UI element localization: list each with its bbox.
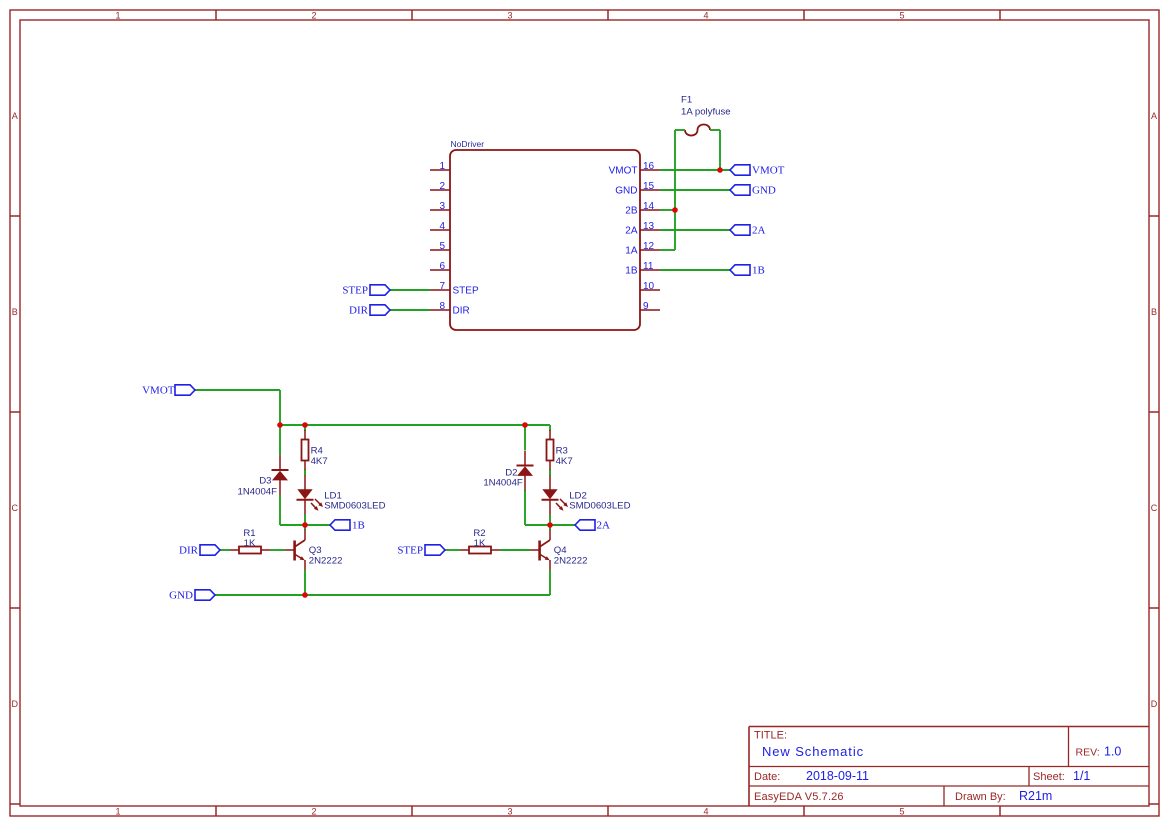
wire R2 to Q4 base <box>500 549 530 551</box>
wire R1 to Q3 base <box>270 549 285 551</box>
frame tick top x=216 <box>215 10 217 20</box>
svg-text:7: 7 <box>439 281 445 292</box>
svg-text:12: 12 <box>643 241 655 252</box>
svg-text:DIR: DIR <box>453 306 470 317</box>
svg-text:GND: GND <box>752 185 776 197</box>
svg-text:5: 5 <box>899 807 904 817</box>
svg-text:Date:: Date: <box>754 771 780 783</box>
net port STEP (points right) <box>425 545 445 555</box>
frame tick left y=216 <box>10 215 20 217</box>
title block border lines <box>749 727 1149 807</box>
wire DIR port to U1 pin 8 <box>390 309 430 311</box>
svg-text:GND: GND <box>169 590 193 602</box>
net port GND (points left) <box>730 185 750 195</box>
svg-text:15: 15 <box>643 181 655 192</box>
svg-text:1K: 1K <box>474 538 486 549</box>
svg-text:B: B <box>12 307 18 317</box>
svg-text:10: 10 <box>643 281 655 292</box>
frame tick top x=412 <box>411 10 413 20</box>
pin 12 of U1 <box>640 249 660 251</box>
wire LD1 to node 1B <box>304 515 306 526</box>
pin 9 of U1 <box>640 309 660 311</box>
wire GND rail <box>215 594 550 596</box>
svg-text:B: B <box>1151 307 1157 317</box>
wire VMOT down to rail <box>279 390 281 425</box>
frame tick right y=608 <box>1149 607 1159 609</box>
pin 11 of U1 <box>640 269 660 271</box>
wire STEP port to U1 pin 7 <box>390 289 430 291</box>
svg-text:STEP: STEP <box>342 285 368 297</box>
svg-text:TITLE:: TITLE: <box>754 730 787 742</box>
junction at U1 pin 14 <box>672 207 678 213</box>
svg-text:DIR: DIR <box>179 545 199 557</box>
frame tick right y=216 <box>1149 215 1159 217</box>
pin 15 of U1 <box>640 189 660 191</box>
wire LD2 to node 2A <box>549 515 551 526</box>
frame tick bottom x=1000 <box>999 806 1001 816</box>
wire fuse net top right <box>710 129 720 131</box>
wire U1 pin 11 to 1B port <box>660 269 730 271</box>
svg-text:16: 16 <box>643 161 655 172</box>
pin 8 of U1 <box>430 309 450 311</box>
wire Q3 emitter to GND rail <box>304 570 306 595</box>
svg-text:1: 1 <box>439 161 445 172</box>
svg-text:2: 2 <box>311 10 316 20</box>
wire D2 cathode down <box>524 490 526 525</box>
svg-text:3: 3 <box>439 201 445 212</box>
svg-text:VMOT: VMOT <box>142 385 175 397</box>
net port DIR (points right) <box>200 545 220 555</box>
wire R3 to LD2 <box>549 470 551 477</box>
transistor Q4 2N2222 NPN <box>530 530 550 571</box>
svg-text:GND: GND <box>615 186 637 197</box>
svg-text:3: 3 <box>507 807 512 817</box>
op-amp U1 NoDriver IC body <box>450 150 640 330</box>
svg-text:2N2222: 2N2222 <box>309 555 343 566</box>
svg-text:1/1: 1/1 <box>1073 769 1090 783</box>
svg-text:C: C <box>12 503 19 513</box>
resistor R2 1K horizontal <box>460 547 500 554</box>
svg-text:2A: 2A <box>625 226 638 237</box>
wire rail to R4 <box>304 425 306 431</box>
svg-text:1B: 1B <box>352 520 365 532</box>
net port 2A (points left) <box>575 520 595 530</box>
diode D3 1N4004F <box>272 455 289 495</box>
svg-text:1K: 1K <box>244 538 256 549</box>
wire U1 pin 13 to 2A port <box>660 229 730 231</box>
svg-text:SMD0603LED: SMD0603LED <box>324 501 385 512</box>
wire fuse net vertical right <box>719 130 721 170</box>
svg-text:2N2222: 2N2222 <box>554 555 588 566</box>
net port 1B (points left) <box>330 520 350 530</box>
svg-text:2: 2 <box>311 807 316 817</box>
wire U1 pin 16 to VMOT port <box>660 169 730 171</box>
net port DIR (points right) <box>370 305 390 315</box>
svg-text:D: D <box>12 699 19 709</box>
svg-text:NoDriver: NoDriver <box>451 139 485 149</box>
svg-text:1: 1 <box>115 10 120 20</box>
pin 6 of U1 <box>430 269 450 271</box>
wire D2 to node 2A <box>525 524 550 526</box>
frame tick top x=608 <box>607 10 609 20</box>
pin 16 of U1 <box>640 169 660 171</box>
svg-text:LD1: LD1 <box>324 490 342 501</box>
node 2A junction <box>547 522 553 528</box>
net port GND (points right) <box>195 590 215 600</box>
wire rail to D2 anode <box>524 425 526 450</box>
svg-text:5: 5 <box>439 241 445 252</box>
wire STEP port to R2 <box>445 549 460 551</box>
svg-text:1: 1 <box>115 807 120 817</box>
svg-text:D3: D3 <box>259 476 271 487</box>
net port STEP (points right) <box>370 285 390 295</box>
wire U1 pin 14 stub to fuse net <box>660 209 675 211</box>
wire VMOT port horizontal <box>195 389 280 391</box>
frame tick top x=804 <box>803 10 805 20</box>
wire node 1B to Q3 collector <box>304 525 306 530</box>
svg-text:1.0: 1.0 <box>1104 745 1121 759</box>
frame tick top x=1000 <box>999 10 1001 20</box>
net port 1B (points left) <box>730 265 750 275</box>
svg-text:Sheet:: Sheet: <box>1033 771 1065 783</box>
svg-text:STEP: STEP <box>397 545 423 557</box>
frame tick left y=804 <box>10 803 20 805</box>
svg-text:Drawn By:: Drawn By: <box>955 791 1006 803</box>
svg-text:4: 4 <box>439 221 445 232</box>
wire fuse net vertical left <box>674 130 676 250</box>
svg-text:F1: F1 <box>681 95 692 106</box>
svg-text:4K7: 4K7 <box>556 456 573 467</box>
wire R4 to LD1 <box>304 470 306 477</box>
resistor R3 4K7 vertical <box>547 430 554 470</box>
svg-text:1N4004F: 1N4004F <box>238 486 278 497</box>
diode D2 1N4004F <box>517 451 534 491</box>
LED LD1 SMD0603LED <box>297 476 324 515</box>
wire VMOT rail <box>280 424 550 426</box>
svg-text:14: 14 <box>643 201 655 212</box>
svg-text:EasyEDA V5.7.26: EasyEDA V5.7.26 <box>754 791 844 803</box>
svg-text:LD2: LD2 <box>569 490 587 501</box>
net port 2A (points left) <box>730 225 750 235</box>
svg-text:D: D <box>1151 699 1158 709</box>
resistor R4 4K7 vertical <box>302 430 309 470</box>
svg-text:6: 6 <box>439 261 445 272</box>
svg-text:VMOT: VMOT <box>752 165 785 177</box>
frame tick left y=412 <box>10 411 20 413</box>
svg-text:A: A <box>12 111 18 121</box>
frame tick bottom x=216 <box>215 806 217 816</box>
svg-text:1B: 1B <box>625 266 638 277</box>
pin 13 of U1 <box>640 229 660 231</box>
wire U1 pin 12 stub to fuse net <box>660 249 675 251</box>
svg-text:2A: 2A <box>597 520 611 532</box>
junction rail at D2 <box>522 422 528 428</box>
pin 10 of U1 <box>640 289 660 291</box>
net port VMOT (points left) <box>730 165 750 175</box>
svg-text:2: 2 <box>439 181 445 192</box>
junction VMOT rail left <box>277 422 283 428</box>
node 1B junction <box>302 522 308 528</box>
frame tick left y=608 <box>10 607 20 609</box>
svg-text:New Schematic: New Schematic <box>762 744 864 759</box>
svg-text:3: 3 <box>507 10 512 20</box>
frame tick right y=804 <box>1149 803 1159 805</box>
svg-text:1N4004F: 1N4004F <box>483 477 523 488</box>
svg-text:REV:: REV: <box>1076 747 1100 759</box>
svg-text:SMD0603LED: SMD0603LED <box>569 501 630 512</box>
svg-text:9: 9 <box>643 301 649 312</box>
pin 7 of U1 <box>430 289 450 291</box>
transistor Q3 2N2222 NPN <box>285 530 305 571</box>
svg-text:STEP: STEP <box>453 286 479 297</box>
svg-text:4: 4 <box>703 807 708 817</box>
pin 5 of U1 <box>430 249 450 251</box>
pin 4 of U1 <box>430 229 450 231</box>
svg-text:5: 5 <box>899 10 904 20</box>
svg-text:13: 13 <box>643 221 655 232</box>
svg-text:11: 11 <box>643 261 654 272</box>
fuse F1 1A polyfuse symbol <box>685 125 710 136</box>
junction at fuse and VMOT port <box>717 167 723 173</box>
frame tick bottom x=608 <box>607 806 609 816</box>
wire node 2A to Q4 collector <box>549 525 551 530</box>
svg-text:4: 4 <box>703 10 708 20</box>
wire rail to R3 <box>549 425 551 431</box>
svg-text:VMOT: VMOT <box>609 166 638 177</box>
net port VMOT (points right) <box>175 385 195 395</box>
wire fuse net top left <box>675 129 685 131</box>
junction rail at R4 <box>302 422 308 428</box>
pin 1 of U1 <box>430 169 450 171</box>
frame tick bottom x=412 <box>411 806 413 816</box>
junction GND rail at Q3 <box>302 592 308 598</box>
svg-text:C: C <box>1151 503 1158 513</box>
svg-text:2A: 2A <box>752 225 766 237</box>
svg-text:A: A <box>1151 111 1157 121</box>
wire DIR port to R1 <box>220 549 230 551</box>
pin 14 of U1 <box>640 209 660 211</box>
svg-text:8: 8 <box>439 301 445 312</box>
wire U1 pin 15 to GND port <box>660 189 730 191</box>
svg-text:4K7: 4K7 <box>311 456 328 467</box>
svg-text:2018-09-11: 2018-09-11 <box>806 769 869 783</box>
pin 3 of U1 <box>430 209 450 211</box>
wire rail to D3 anode <box>279 425 281 455</box>
wire D3 to node 1B <box>280 524 305 526</box>
pin 2 of U1 <box>430 189 450 191</box>
wire Q4 emitter to GND rail <box>549 570 551 595</box>
LED LD2 SMD0603LED <box>542 476 569 515</box>
wire D3 cathode down <box>279 495 281 525</box>
frame tick right y=412 <box>1149 411 1159 413</box>
svg-text:2B: 2B <box>625 206 638 217</box>
svg-text:1A: 1A <box>625 246 638 257</box>
wire node 1B to port <box>305 524 330 526</box>
wire node 2A to port <box>550 524 575 526</box>
frame tick bottom x=804 <box>803 806 805 816</box>
svg-text:DIR: DIR <box>349 305 369 317</box>
svg-text:1B: 1B <box>752 265 765 277</box>
svg-text:R21m: R21m <box>1019 789 1052 803</box>
resistor R1 1K horizontal <box>230 547 270 554</box>
svg-text:1A polyfuse: 1A polyfuse <box>681 107 731 118</box>
